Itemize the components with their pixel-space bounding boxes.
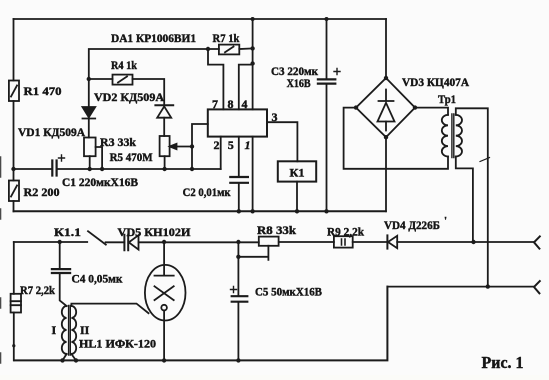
junction winding I bottom bbox=[60, 358, 64, 362]
resistor R5 trimmer bbox=[160, 136, 170, 169]
junction R7 right top bbox=[250, 46, 254, 50]
svg-text:C2 0,01мк: C2 0,01мк bbox=[183, 185, 231, 199]
diode VD2 bbox=[155, 105, 173, 136]
wire bridge left to primary loop bbox=[344, 108, 448, 169]
wire trigger electrode bbox=[71, 304, 148, 314]
junction pin5 bottom rail bbox=[237, 209, 241, 213]
stray mark near transformer bbox=[480, 158, 490, 162]
page edge artifact marks bbox=[0, 157, 2, 363]
junction R3 tap bbox=[100, 167, 104, 171]
ink blob on left wire bbox=[12, 344, 15, 347]
wire lamp circuit row bbox=[14, 241, 534, 243]
junction R4 left node bbox=[87, 77, 91, 81]
wire ground rail bottom bbox=[14, 287, 387, 361]
junction C3 bottom rail bbox=[324, 209, 328, 213]
svg-text:R8 33k: R8 33k bbox=[257, 223, 296, 237]
junction lamp anode node bbox=[162, 240, 166, 244]
wire left vertical branch bbox=[13, 19, 15, 211]
svg-text:8: 8 bbox=[228, 97, 234, 111]
wire lamp top lead bbox=[163, 242, 165, 275]
switch K1.1 blade bbox=[88, 231, 106, 244]
svg-text:DA1 КР1006ВИ1: DA1 КР1006ВИ1 bbox=[111, 31, 196, 45]
connector output arrow 1 bbox=[534, 236, 540, 248]
svg-text:VD3 КЦ407А: VD3 КЦ407А bbox=[402, 75, 469, 89]
wire bridge top feed bbox=[385, 19, 387, 78]
svg-text:R7 2,2k: R7 2,2k bbox=[20, 283, 55, 297]
wire pin5 lead bbox=[238, 137, 240, 212]
connector output arrow 2 bbox=[534, 281, 540, 293]
resistor R8 trimmer bbox=[238, 237, 278, 260]
junction R3 bottom bbox=[88, 167, 92, 171]
wire bridge bottom lead bbox=[385, 137, 387, 211]
wire pin6 route bbox=[192, 124, 208, 169]
svg-text:R7 1k: R7 1k bbox=[213, 31, 240, 45]
svg-text:HL1 ИФК-120: HL1 ИФК-120 bbox=[79, 337, 156, 351]
svg-text:К1.1: К1.1 bbox=[54, 225, 81, 239]
wire R4 row bbox=[89, 79, 164, 107]
svg-text:VD5 КН102И: VD5 КН102И bbox=[118, 225, 192, 239]
capacitor C4 bbox=[52, 269, 70, 273]
junction R5 bottom bbox=[162, 167, 166, 171]
wire output row 2 bbox=[387, 286, 534, 288]
junction bridge bottom vertex bbox=[384, 135, 388, 139]
wire secondary top lead bbox=[456, 108, 488, 286]
diode VD1 bbox=[83, 107, 96, 138]
capacitor C5 bbox=[231, 287, 248, 302]
resistor R1 bbox=[9, 81, 19, 102]
svg-text:II: II bbox=[80, 323, 90, 337]
capacitor C1 bbox=[52, 155, 64, 176]
svg-text:C1 220мкХ16В: C1 220мкХ16В bbox=[62, 175, 138, 189]
wire R7 row bbox=[208, 47, 253, 50]
wire lamp bottom lead bbox=[163, 311, 165, 361]
wire C4 column bbox=[60, 242, 67, 306]
junction pin8 node bbox=[250, 61, 254, 65]
junction lamp cathode rail bbox=[162, 358, 166, 362]
wire C5 column bbox=[237, 242, 239, 360]
svg-text:Х16В: Х16В bbox=[287, 76, 311, 90]
junction bridge right vertex bbox=[413, 105, 417, 109]
junction C3 top rail bbox=[325, 17, 329, 21]
wire C1 node rail bbox=[14, 168, 221, 170]
wire winding II bottom lead bbox=[71, 354, 76, 360]
junction C1 rail left bbox=[11, 167, 15, 171]
svg-text:R5 470М: R5 470М bbox=[110, 150, 153, 164]
transformer T core bbox=[69, 306, 71, 356]
svg-text:C5 50мкХ16В: C5 50мкХ16В bbox=[255, 285, 322, 299]
wire pin7 connector bbox=[208, 49, 223, 109]
junction R7 left node bbox=[206, 47, 210, 51]
dinistor VD5 bbox=[124, 235, 138, 250]
junction C5 bottom rail bbox=[236, 358, 240, 362]
junction R5 wiper node bbox=[190, 144, 194, 148]
svg-text:VD4 Д226Б: VD4 Д226Б bbox=[384, 218, 440, 232]
junction pin6 rail bbox=[190, 167, 194, 171]
transformer Tр1 primary winding bbox=[442, 115, 448, 157]
svg-text:R3 33k: R3 33k bbox=[100, 135, 136, 149]
junction winding II bottom bbox=[74, 358, 78, 362]
wiper arrow of R5 bbox=[170, 144, 192, 149]
wire top supply rail bbox=[14, 18, 387, 20]
wire pin8 connector bbox=[239, 65, 253, 110]
resistor R2 bbox=[9, 181, 19, 202]
relay K1 bbox=[278, 161, 316, 181]
junction R8 wiper node bbox=[236, 255, 240, 259]
transformer Tр1 core bbox=[452, 114, 454, 158]
svg-text:I: I bbox=[52, 323, 57, 337]
wire K1 bottom lead bbox=[296, 182, 298, 212]
op-amp timer DA1 box bbox=[208, 109, 267, 136]
junction K1 bottom rail bbox=[295, 209, 299, 213]
svg-text:R9 2,2k: R9 2,2k bbox=[327, 225, 364, 239]
junction bridge left vertex bbox=[354, 105, 358, 109]
svg-text:1: 1 bbox=[245, 138, 251, 152]
svg-text:Рис. 1: Рис. 1 bbox=[482, 353, 524, 372]
junction secondary output node A bbox=[471, 240, 475, 244]
transformer T winding I bbox=[62, 306, 67, 354]
wire left vertical of lamp section bbox=[13, 242, 15, 360]
svg-text:Тр1: Тр1 bbox=[438, 92, 456, 106]
svg-text:R2 200: R2 200 bbox=[24, 185, 60, 199]
svg-text:2: 2 bbox=[214, 138, 220, 152]
wire pin4 vertical bbox=[252, 19, 254, 109]
flash lamp HL1 bbox=[145, 265, 186, 321]
label C3 220мк Х16В bbox=[271, 64, 318, 90]
wire winding I bottom lead bbox=[63, 354, 67, 360]
wire bottom rail of top section bbox=[14, 210, 386, 212]
rectifier bridge VD3 bbox=[356, 78, 415, 137]
svg-text:К1: К1 bbox=[290, 166, 305, 180]
transformer Tр1 secondary winding bbox=[456, 115, 462, 157]
svg-text:': ' bbox=[444, 215, 447, 227]
capacitor C3 leads bbox=[326, 19, 328, 211]
resistor R9 bbox=[334, 236, 353, 247]
resistor R4 bbox=[113, 75, 133, 85]
junction bridge top vertex bbox=[384, 76, 388, 80]
svg-text:VD2 КД509А: VD2 КД509А bbox=[94, 90, 164, 104]
svg-text:VD1 КД509А: VD1 КД509А bbox=[18, 125, 85, 139]
wire pin1 lead bbox=[252, 137, 254, 212]
junction secondary output node B bbox=[486, 284, 490, 288]
svg-text:5: 5 bbox=[228, 138, 234, 152]
junction C4 node bbox=[58, 240, 62, 244]
capacitor C2 bbox=[230, 177, 248, 183]
junction pin4 top rail bbox=[251, 17, 255, 21]
transformer T winding II bbox=[71, 306, 76, 354]
diode VD4 bbox=[387, 235, 397, 248]
junction pin1 bottom rail bbox=[250, 209, 254, 213]
junction R8 left node bbox=[236, 240, 240, 244]
capacitor C3 bbox=[318, 69, 340, 84]
wire bridge right to primary top bbox=[415, 108, 448, 115]
wire pin7 node horizontal bbox=[89, 49, 208, 79]
svg-text:R1 470: R1 470 bbox=[24, 84, 62, 98]
resistor R3 bbox=[84, 138, 102, 170]
svg-text:7: 7 bbox=[212, 97, 218, 111]
resistor R7 top bbox=[219, 45, 239, 55]
wire pin2 route bbox=[220, 137, 222, 169]
wire pin3 to relay bbox=[267, 122, 297, 161]
svg-text:4: 4 bbox=[242, 97, 248, 111]
wire secondary bottom lead bbox=[456, 157, 473, 243]
svg-text:C4 0,05мк: C4 0,05мк bbox=[72, 272, 123, 286]
svg-text:R4 1k: R4 1k bbox=[111, 58, 137, 72]
resistor R7 bottom bbox=[11, 294, 21, 313]
